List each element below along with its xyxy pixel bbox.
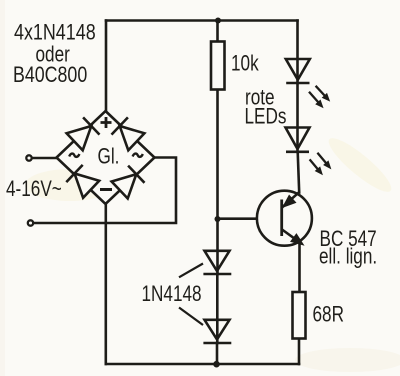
wire LED2 to collector [298,152,300,193]
svg-text:Gl.: Gl. [98,145,120,170]
wire bottom rail [106,363,299,366]
wire 68R to bottom rail [298,339,301,365]
bridge rectifier Gl. diamond outline [57,111,155,204]
terminal upper AC [26,155,31,160]
bridge plus mark [101,117,112,128]
wire bridge bottom to bottom rail [105,204,108,364]
wire 10k top [216,21,219,42]
pointer line to D3 [179,264,203,278]
wire lower diode to bottom rail [216,343,219,364]
bridge tilde right [133,154,143,157]
bridge diode bottom-left [66,165,99,198]
bridge diode top-right [112,117,145,150]
wire LED chain upper [296,21,299,84]
junction node base [215,216,221,222]
transistor collector line [282,192,300,208]
wire between 1N4148 diodes [216,274,219,343]
LED D1 [286,59,310,83]
svg-text:10k: 10k [231,51,259,76]
wire emitter to 68R [298,243,301,292]
LED D2 [286,128,310,152]
svg-text:LEDs: LEDs [245,104,287,129]
svg-text:1N4148: 1N4148 [142,282,202,307]
transistor Q1 BC547 circle [257,191,312,246]
terminal lower AC [28,220,33,225]
junction node bottom [213,361,220,368]
svg-text:4-16V~: 4-16V~ [6,177,62,202]
wire terminal1 to bridge left [33,157,57,160]
wire bridge right to terminal2 [34,158,176,224]
transistor emitter line [282,230,302,244]
LED D1 light arrows [309,86,329,108]
diode D4 1N4148 lower [203,320,231,343]
pointer line to D4 [179,308,203,326]
transistor base bar [280,200,283,237]
svg-text:B40C800: B40C800 [13,63,87,87]
wire 10k bottom to base junction and diode chain [216,90,219,275]
transistor emitter arrowhead [291,234,303,244]
bridge diode top-left [67,117,100,150]
resistor R1 10k [211,42,225,90]
junction node top [215,18,221,24]
resistor R2 68R [293,292,306,339]
svg-text:4x1N4148: 4x1N4148 [14,21,96,45]
svg-text:ell. lign.: ell. lign. [319,245,377,270]
wire top rail [106,19,298,22]
diode D3 1N4148 upper [203,251,231,274]
svg-text:68R: 68R [313,302,344,327]
bridge diode bottom-right [112,166,145,199]
wire LED1 to LED2 [296,83,299,152]
bridge tilde left [69,154,79,157]
bridge minus mark [100,188,112,191]
LED D2 light arrows [310,153,331,175]
transistor collector arrowhead [283,196,295,207]
wire base junction to transistor base [218,217,282,220]
wire bridge top to rail [105,21,108,112]
